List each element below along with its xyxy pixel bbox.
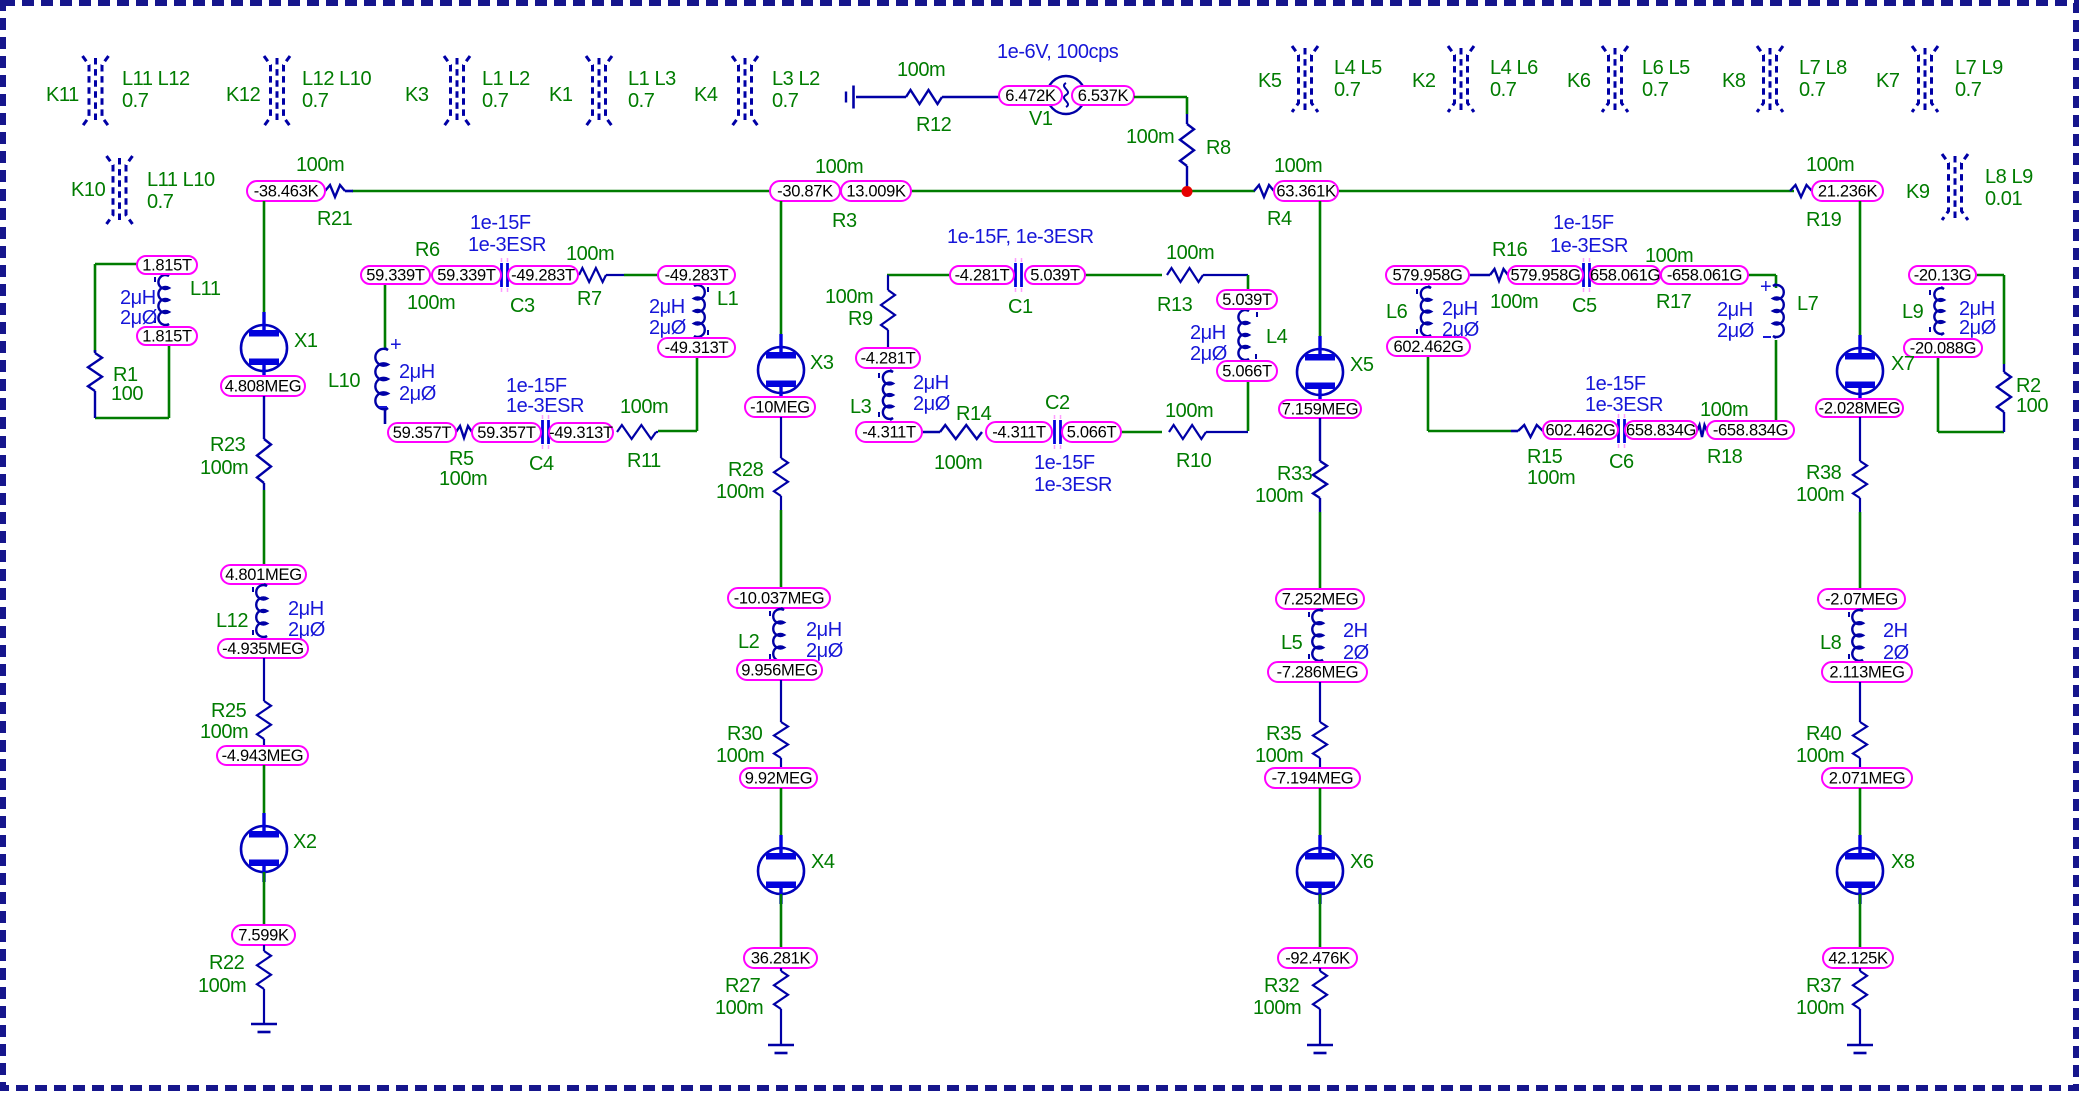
inductor L8 [1820, 609, 1909, 664]
resistor R30 [716, 680, 788, 768]
capacitor C2 value label [1034, 452, 1112, 496]
node value 6.537K [1072, 86, 1134, 105]
wire [1319, 201, 1322, 349]
svg-text:R32: R32 [1264, 975, 1300, 997]
capacitor C6 [1609, 414, 1634, 473]
junction node [1182, 186, 1193, 197]
svg-text:C6: C6 [1609, 451, 1634, 473]
svg-text:C4: C4 [529, 453, 554, 475]
svg-text:7.599K: 7.599K [238, 927, 289, 945]
svg-text:36.281K: 36.281K [751, 950, 811, 968]
node value -49.283T [658, 266, 735, 285]
svg-text:579.958G: 579.958G [1392, 267, 1462, 285]
svg-text:1e-3ESR: 1e-3ESR [1034, 474, 1112, 496]
svg-text:2Ø: 2Ø [1883, 642, 1909, 664]
wire [658, 430, 697, 433]
svg-text:100m: 100m [815, 156, 863, 178]
svg-text:R11: R11 [627, 450, 661, 472]
node value 5.066T [1062, 422, 1121, 442]
resistor R27 [715, 968, 788, 1045]
node value -4.935MEG [218, 639, 308, 658]
svg-text:100m: 100m [934, 452, 982, 474]
node value 4.808MEG [221, 376, 305, 396]
node value 2.113MEG [1822, 662, 1912, 682]
svg-text:100m: 100m [1806, 154, 1854, 176]
svg-text:R17: R17 [1656, 291, 1692, 313]
svg-text:R30: R30 [727, 723, 763, 745]
node value -4.281T [856, 348, 920, 368]
svg-text:L4 L6: L4 L6 [1490, 57, 1538, 79]
svg-text:0.7: 0.7 [302, 90, 329, 112]
node value -4.311T [856, 422, 922, 442]
node value -2.028MEG [1816, 399, 1903, 418]
wire [1859, 201, 1862, 348]
coupling K8 [1722, 46, 1847, 112]
resistor R14 [922, 403, 992, 474]
svg-text:X6: X6 [1350, 851, 1374, 873]
svg-text:L6 L5: L6 L5 [1642, 57, 1690, 79]
svg-text:-20.088G: -20.088G [1910, 340, 1976, 358]
svg-text:1e-15F: 1e-15F [470, 212, 531, 234]
node value 7.159MEG [1279, 400, 1361, 419]
wire [1937, 357, 1940, 432]
svg-text:K3: K3 [405, 84, 429, 106]
wire [1859, 788, 1862, 848]
svg-text:R9: R9 [848, 308, 873, 330]
svg-text:-10MEG: -10MEG [750, 399, 810, 417]
svg-text:-92.476K: -92.476K [1285, 950, 1350, 968]
resistor R17 labels [1645, 245, 1693, 313]
resistor R23 [200, 396, 271, 490]
svg-text:0.7: 0.7 [1642, 79, 1669, 101]
svg-text:100m: 100m [1166, 242, 1214, 264]
node value 36.281K [744, 948, 817, 968]
svg-text:100m: 100m [1645, 245, 1693, 267]
ground [251, 1024, 277, 1032]
svg-text:-49.283T: -49.283T [665, 267, 729, 285]
resistor R15 [1511, 425, 1575, 489]
wire [780, 788, 783, 848]
svg-text:L1: L1 [717, 288, 739, 310]
svg-text:7.252MEG: 7.252MEG [1282, 591, 1358, 609]
wire [94, 264, 97, 352]
svg-text:K11: K11 [46, 84, 79, 106]
coupling K4 [694, 56, 820, 126]
svg-text:R18: R18 [1707, 446, 1743, 468]
resistor R38 [1796, 417, 1867, 512]
svg-text:0.7: 0.7 [122, 90, 149, 112]
svg-text:1e-15F: 1e-15F [1034, 452, 1095, 474]
node value 2.071MEG [1822, 768, 1912, 788]
inductor L6 [1386, 286, 1479, 341]
svg-text:2μH: 2μH [1190, 322, 1226, 344]
svg-text:0.7: 0.7 [1490, 79, 1517, 101]
svg-text:-4.311T: -4.311T [862, 424, 916, 442]
svg-text:1.815T: 1.815T [142, 257, 192, 275]
wire [263, 872, 266, 925]
svg-text:R16: R16 [1492, 239, 1528, 261]
capacitor C3 [502, 258, 535, 317]
node value -30.87K [770, 181, 840, 201]
svg-text:R33: R33 [1277, 463, 1313, 485]
inductor L2 [738, 608, 843, 662]
svg-text:4.801MEG: 4.801MEG [225, 566, 301, 584]
svg-text:-658.061G: -658.061G [1667, 267, 1742, 285]
resistor R1 [88, 350, 143, 418]
svg-text:L3: L3 [850, 396, 872, 418]
tube X6 [1297, 835, 1374, 904]
coupling K9 [1906, 154, 2033, 220]
node value -658.061G [1661, 266, 1748, 285]
wire [1775, 340, 1778, 421]
svg-text:R25: R25 [211, 700, 247, 722]
svg-text:R22: R22 [209, 952, 245, 974]
node value 579.958G [1508, 266, 1583, 285]
svg-text:K2: K2 [1412, 70, 1436, 92]
inductor L11 [120, 274, 221, 329]
wire [352, 190, 770, 193]
svg-text:-49.283T: -49.283T [511, 267, 575, 285]
svg-text:2H: 2H [1343, 620, 1368, 642]
resistor R9 [825, 275, 895, 348]
inductor L10 [328, 334, 436, 424]
svg-text:L7 L8: L7 L8 [1799, 57, 1847, 79]
svg-text:X3: X3 [810, 352, 834, 374]
svg-text:L11: L11 [190, 278, 221, 300]
wire [1121, 431, 1162, 434]
svg-text:L4: L4 [1266, 326, 1288, 348]
resistor R22 [198, 945, 271, 1024]
node value 59.339T [361, 266, 430, 285]
ground [768, 1045, 794, 1053]
svg-text:0.7: 0.7 [628, 90, 655, 112]
svg-text:R40: R40 [1806, 723, 1842, 745]
coupling K6 [1567, 46, 1690, 112]
svg-text:R15: R15 [1527, 446, 1563, 468]
resistor R18 [1697, 399, 1748, 468]
svg-text:2μH: 2μH [913, 372, 949, 394]
svg-text:9.956MEG: 9.956MEG [741, 662, 817, 680]
svg-text:R14: R14 [956, 403, 992, 425]
tube X4 [758, 835, 835, 904]
svg-text:6.537K: 6.537K [1078, 87, 1129, 105]
svg-text:-38.463K: -38.463K [254, 183, 319, 201]
node value 5.039T [1025, 266, 1085, 285]
svg-text:R38: R38 [1806, 462, 1842, 484]
svg-text:+: + [390, 334, 401, 356]
wire [1186, 97, 1189, 114]
wire [1085, 274, 1162, 277]
svg-text:X8: X8 [1891, 851, 1915, 873]
node value 602.462G [1387, 337, 1470, 356]
svg-text:R27: R27 [725, 975, 761, 997]
svg-text:L2: L2 [738, 631, 760, 653]
wire [1428, 430, 1511, 433]
svg-text:100m: 100m [200, 721, 248, 743]
svg-text:100m: 100m [1796, 745, 1844, 767]
svg-text:V1: V1 [1029, 108, 1053, 130]
svg-text:-7.194MEG: -7.194MEG [1272, 770, 1354, 788]
resistor R28 [716, 417, 788, 510]
wire [1976, 274, 2004, 277]
wire [263, 490, 266, 565]
svg-text:59.357T: 59.357T [393, 424, 452, 442]
svg-text:4.808MEG: 4.808MEG [225, 378, 301, 396]
svg-text:L1 L2: L1 L2 [482, 68, 530, 90]
svg-text:2μØ: 2μØ [649, 317, 686, 339]
svg-text:L8: L8 [1820, 632, 1842, 654]
node value 7.252MEG [1276, 589, 1364, 609]
svg-text:2μØ: 2μØ [399, 383, 436, 405]
svg-text:C2: C2 [1045, 392, 1070, 414]
resistor R7 [566, 243, 624, 310]
svg-text:2μØ: 2μØ [288, 619, 325, 641]
tube X8 [1837, 835, 1915, 904]
node value -20.13G [1909, 266, 1976, 285]
svg-text:100: 100 [2016, 395, 2048, 417]
svg-text:2μH: 2μH [288, 598, 324, 620]
node value 5.039T [1217, 290, 1277, 309]
wire [263, 201, 266, 325]
wire [95, 417, 169, 420]
resistor R12 [856, 59, 999, 136]
node value -4.943MEG [217, 746, 308, 765]
svg-text:100m: 100m [1274, 155, 1322, 177]
svg-text:2μØ: 2μØ [913, 393, 950, 415]
capacitor C4 value label [506, 375, 584, 417]
svg-text:R37: R37 [1806, 975, 1842, 997]
svg-text:C5: C5 [1572, 295, 1597, 317]
svg-text:0.7: 0.7 [772, 90, 799, 112]
svg-text:R28: R28 [728, 459, 764, 481]
svg-text:7.159MEG: 7.159MEG [1282, 401, 1358, 419]
svg-text:100m: 100m [1796, 997, 1844, 1019]
node value 13.009K [841, 181, 911, 201]
svg-text:R6: R6 [415, 239, 440, 261]
svg-text:R21: R21 [317, 208, 353, 230]
svg-text:-30.87K: -30.87K [777, 183, 833, 201]
svg-text:R8: R8 [1206, 137, 1231, 159]
svg-text:0.7: 0.7 [1334, 79, 1361, 101]
svg-text:-4.281T: -4.281T [955, 267, 1010, 285]
svg-text:C1: C1 [1008, 296, 1033, 318]
node value 9.92MEG [740, 768, 817, 788]
svg-text:0.7: 0.7 [1799, 79, 1826, 101]
svg-text:L12: L12 [216, 610, 248, 632]
node value -2.07MEG [1818, 589, 1905, 609]
wire [263, 765, 266, 826]
svg-text:R23: R23 [210, 434, 246, 456]
svg-text:L7: L7 [1797, 293, 1819, 315]
svg-text:100m: 100m [715, 997, 763, 1019]
ground [1847, 1045, 1873, 1053]
coupling K7 [1876, 46, 2003, 112]
wire [1748, 274, 1776, 277]
svg-text:X4: X4 [811, 851, 835, 873]
node value -38.463K [247, 181, 325, 201]
wire [780, 894, 783, 948]
svg-text:2μH: 2μH [1442, 298, 1478, 320]
svg-text:0.01: 0.01 [1985, 188, 2022, 210]
node value 1.815T [137, 327, 197, 346]
node value -20.088G [1904, 339, 1982, 358]
svg-text:K1: K1 [549, 84, 573, 106]
svg-text:579.958G: 579.958G [1510, 267, 1580, 285]
svg-text:21.236K: 21.236K [1818, 183, 1878, 201]
svg-text:K10: K10 [71, 179, 106, 201]
wire [1319, 894, 1322, 948]
coupling K1 [549, 56, 676, 126]
wire [780, 201, 783, 347]
coupling K2 [1412, 46, 1538, 112]
svg-text:100m: 100m [1165, 400, 1213, 422]
capacitor C5 [1572, 258, 1597, 317]
svg-text:L4 L5: L4 L5 [1334, 57, 1382, 79]
svg-text:X2: X2 [293, 831, 317, 853]
node value 59.357T [472, 423, 541, 442]
svg-text:R35: R35 [1266, 723, 1302, 745]
node value 5.066T [1217, 361, 1277, 381]
svg-text:K12: K12 [226, 84, 261, 106]
svg-text:1.815T: 1.815T [142, 328, 192, 346]
resistor R5 [439, 426, 487, 490]
svg-text:C3: C3 [510, 295, 535, 317]
svg-text:2μØ: 2μØ [1959, 317, 1996, 339]
node value 6.472K [999, 86, 1062, 105]
svg-text:0.7: 0.7 [147, 191, 174, 213]
node value 4.801MEG [221, 565, 306, 584]
svg-text:2μH: 2μH [120, 287, 156, 309]
svg-text:-4.935MEG: -4.935MEG [222, 640, 304, 658]
svg-text:K5: K5 [1258, 70, 1282, 92]
svg-text:100m: 100m [1126, 126, 1174, 148]
wire [1319, 788, 1322, 848]
wire [780, 510, 783, 588]
svg-text:5.066T: 5.066T [1222, 363, 1272, 381]
svg-text:1e-3ESR: 1e-3ESR [1550, 235, 1628, 257]
coupling K3 [405, 56, 530, 126]
capacitor C4 [529, 415, 554, 475]
svg-text:K9: K9 [1906, 181, 1930, 203]
wire [887, 274, 950, 277]
svg-text:100m: 100m [897, 59, 945, 81]
svg-text:100m: 100m [566, 243, 614, 265]
node value 63.361K [1274, 181, 1338, 201]
svg-text:1e-15F: 1e-15F [506, 375, 567, 397]
resistor R21 [296, 154, 353, 230]
coupling K5 [1258, 46, 1382, 112]
svg-text:100m: 100m [407, 292, 455, 314]
svg-text:1e-15F: 1e-15F [1553, 212, 1614, 234]
wire [1859, 512, 1862, 589]
ground [1307, 1045, 1333, 1053]
svg-text:L12 L10: L12 L10 [302, 68, 371, 90]
svg-text:9.92MEG: 9.92MEG [745, 770, 813, 788]
svg-text:2.113MEG: 2.113MEG [1829, 664, 1904, 682]
svg-text:R4: R4 [1267, 208, 1292, 230]
svg-text:R10: R10 [1176, 450, 1212, 472]
svg-text:59.357T: 59.357T [477, 424, 536, 442]
resistor R2 [1997, 364, 2048, 432]
wire [1247, 275, 1250, 290]
inductor L12 [216, 584, 325, 641]
inductor L3 [850, 370, 950, 420]
svg-text:63.361K: 63.361K [1276, 183, 1336, 201]
svg-text:602.462G: 602.462G [1393, 338, 1463, 356]
svg-text:2H: 2H [1883, 620, 1908, 642]
svg-text:-49.313T: -49.313T [665, 339, 729, 357]
resistor R10 [1165, 400, 1248, 472]
wire [1427, 356, 1430, 431]
svg-text:-7.286MEG: -7.286MEG [1277, 664, 1359, 682]
svg-text:100m: 100m [296, 154, 344, 176]
resistor R11 [617, 396, 668, 472]
svg-text:X5: X5 [1350, 354, 1374, 376]
svg-text:2μH: 2μH [1717, 299, 1753, 321]
node value -49.313T [658, 338, 735, 357]
resistor R3 labels [815, 156, 863, 232]
node value 59.357T [388, 423, 456, 442]
source V1 [1029, 76, 1085, 130]
node value -4.281T [950, 266, 1014, 285]
wire [1134, 96, 1187, 99]
resistor R13 [1157, 242, 1248, 316]
wire [1338, 190, 1794, 193]
node value -658.834G [1707, 421, 1794, 440]
svg-text:L1 L3: L1 L3 [628, 68, 676, 90]
node value -92.476K [1278, 948, 1357, 968]
svg-text:1e-3ESR: 1e-3ESR [468, 234, 546, 256]
svg-text:1e-3ESR: 1e-3ESR [506, 395, 584, 417]
tube X1 [241, 312, 318, 381]
node value 658.061G [1590, 266, 1660, 285]
svg-text:R7: R7 [577, 288, 602, 310]
svg-text:1e-3ESR: 1e-3ESR [1585, 394, 1663, 416]
svg-text:K6: K6 [1567, 70, 1591, 92]
resistor R4 [1254, 155, 1322, 230]
svg-text:100m: 100m [1490, 291, 1538, 313]
svg-text:L3 L2: L3 L2 [772, 68, 820, 90]
svg-text:0.7: 0.7 [482, 90, 509, 112]
node value -49.283T [508, 266, 578, 285]
tube X3 [758, 334, 834, 403]
svg-text:-10.037MEG: -10.037MEG [734, 590, 825, 608]
wire [384, 284, 387, 349]
node value 1.815T [137, 256, 197, 275]
node value 21.236K [1812, 181, 1883, 201]
resistor R19 [1790, 154, 1854, 231]
svg-text:R12: R12 [916, 114, 952, 136]
svg-text:-4.311T: -4.311T [992, 424, 1046, 442]
capacitor C6 value label [1585, 373, 1663, 416]
node value 59.339T [432, 266, 501, 285]
svg-text:-4.281T: -4.281T [861, 350, 916, 368]
inductor L7 [1717, 276, 1819, 342]
svg-text:42.125K: 42.125K [1828, 950, 1888, 968]
svg-text:2μH: 2μH [806, 619, 842, 641]
svg-text:-20.13G: -20.13G [1914, 267, 1972, 285]
svg-text:-4.943MEG: -4.943MEG [222, 747, 304, 765]
wire [624, 274, 658, 277]
tube X5 [1297, 336, 1374, 405]
svg-text:-2.028MEG: -2.028MEG [1819, 400, 1901, 418]
wire [168, 345, 171, 418]
resistor R6 labels [407, 239, 455, 314]
svg-text:100m: 100m [620, 396, 668, 418]
svg-text:+: + [1760, 276, 1771, 298]
svg-text:6.472K: 6.472K [1005, 87, 1056, 105]
node value -10MEG [745, 397, 815, 417]
